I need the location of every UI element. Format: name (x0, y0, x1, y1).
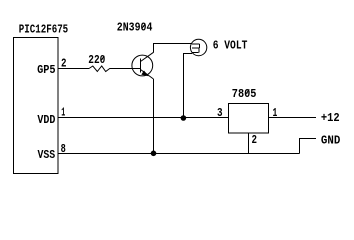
svg-text:3: 3 (217, 106, 223, 120)
svg-text:2: 2 (252, 133, 258, 147)
lamp DS1 circle (190, 39, 206, 55)
svg-text:2N3904: 2N3904 (117, 21, 153, 35)
wire 7805 pin1 output to +12 (269, 117, 317, 119)
svg-text:VSS: VSS (38, 148, 56, 162)
slashed zero mark in 220 (101, 56, 105, 61)
transistor Q1 circle (132, 55, 153, 76)
slashed zero mark in 2N3904 (142, 24, 146, 29)
wire collector riser up and over to lamp (154, 44, 193, 53)
slashed zero mark in 7805 (245, 89, 249, 95)
wire GP5 pin2 to resistor (58, 68, 89, 70)
lamp DS1 filament (3 shape) (192, 44, 200, 53)
svg-text:7805: 7805 (232, 87, 257, 101)
regulator U2 7805 box (229, 104, 269, 134)
svg-text:+12: +12 (321, 111, 340, 125)
transistor Q1 collector stroke (141, 52, 154, 61)
wire emitter riser down to VSS rail (153, 79, 155, 154)
svg-text:VDD: VDD (37, 113, 55, 127)
junction dot emitter/VSS (151, 151, 157, 157)
svg-text:PIC12F675: PIC12F675 (19, 23, 68, 37)
wire VSS rail pin8 to GND corner (58, 153, 300, 155)
wire lamp bottom stub to VDD rail (184, 54, 193, 119)
wire resistor to transistor base (110, 68, 140, 70)
wire GND stub up and right (300, 139, 317, 154)
transistor Q1 emitter stroke (141, 70, 154, 80)
wire 7805 pin2 down to VSS rail (248, 133, 250, 154)
wire VDD rail pin1 to 7805 pin3 (58, 117, 229, 119)
svg-text:GND: GND (321, 133, 340, 147)
svg-text:220: 220 (88, 53, 105, 67)
junction dot lamp/VDD (181, 115, 187, 121)
transistor Q1 base bar (140, 59, 142, 73)
svg-text:6 VOLT: 6 VOLT (213, 39, 248, 53)
resistor R1 220 zigzag (89, 66, 110, 72)
IC U1 PIC12F675 body (14, 38, 59, 174)
transistor Q1 emitter arrowhead (141, 71, 148, 77)
svg-text:GP5: GP5 (37, 63, 56, 77)
